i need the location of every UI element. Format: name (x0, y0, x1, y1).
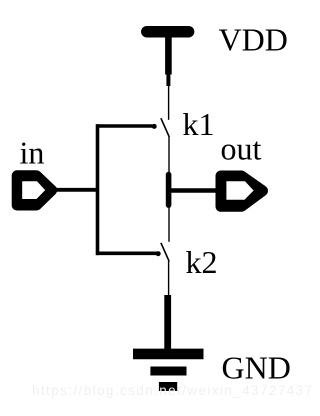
svg-text:k2: k2 (186, 244, 218, 280)
ground GND (133, 295, 204, 387)
junction dot k1 control (152, 124, 157, 129)
wire in to branch (55, 188, 99, 192)
wire out (169, 188, 216, 192)
wire control k1 (96, 124, 153, 128)
node out junction bar (166, 175, 172, 206)
svg-text:https://blog.csdn.net/weixin_4: https://blog.csdn.net/weixin_43727437 (32, 383, 313, 398)
svg-text:GND: GND (222, 350, 291, 386)
switch k2 (161, 243, 169, 262)
wire control branch vertical (96, 124, 100, 255)
wire VDD to k1 (168, 86, 170, 120)
svg-text:out: out (221, 131, 262, 167)
junction dot k2 control (156, 251, 161, 256)
svg-text:in: in (20, 135, 45, 171)
switch k1 (161, 118, 169, 137)
wire k1 to k2 (through out node) (168, 137, 170, 242)
port out (221, 176, 263, 207)
VDD power symbol (147, 32, 189, 86)
wire k2 to GND (168, 261, 170, 296)
svg-text:k1: k1 (183, 106, 215, 142)
wire control k2 (96, 252, 157, 256)
svg-text:VDD: VDD (219, 22, 288, 58)
port in (17, 176, 52, 206)
